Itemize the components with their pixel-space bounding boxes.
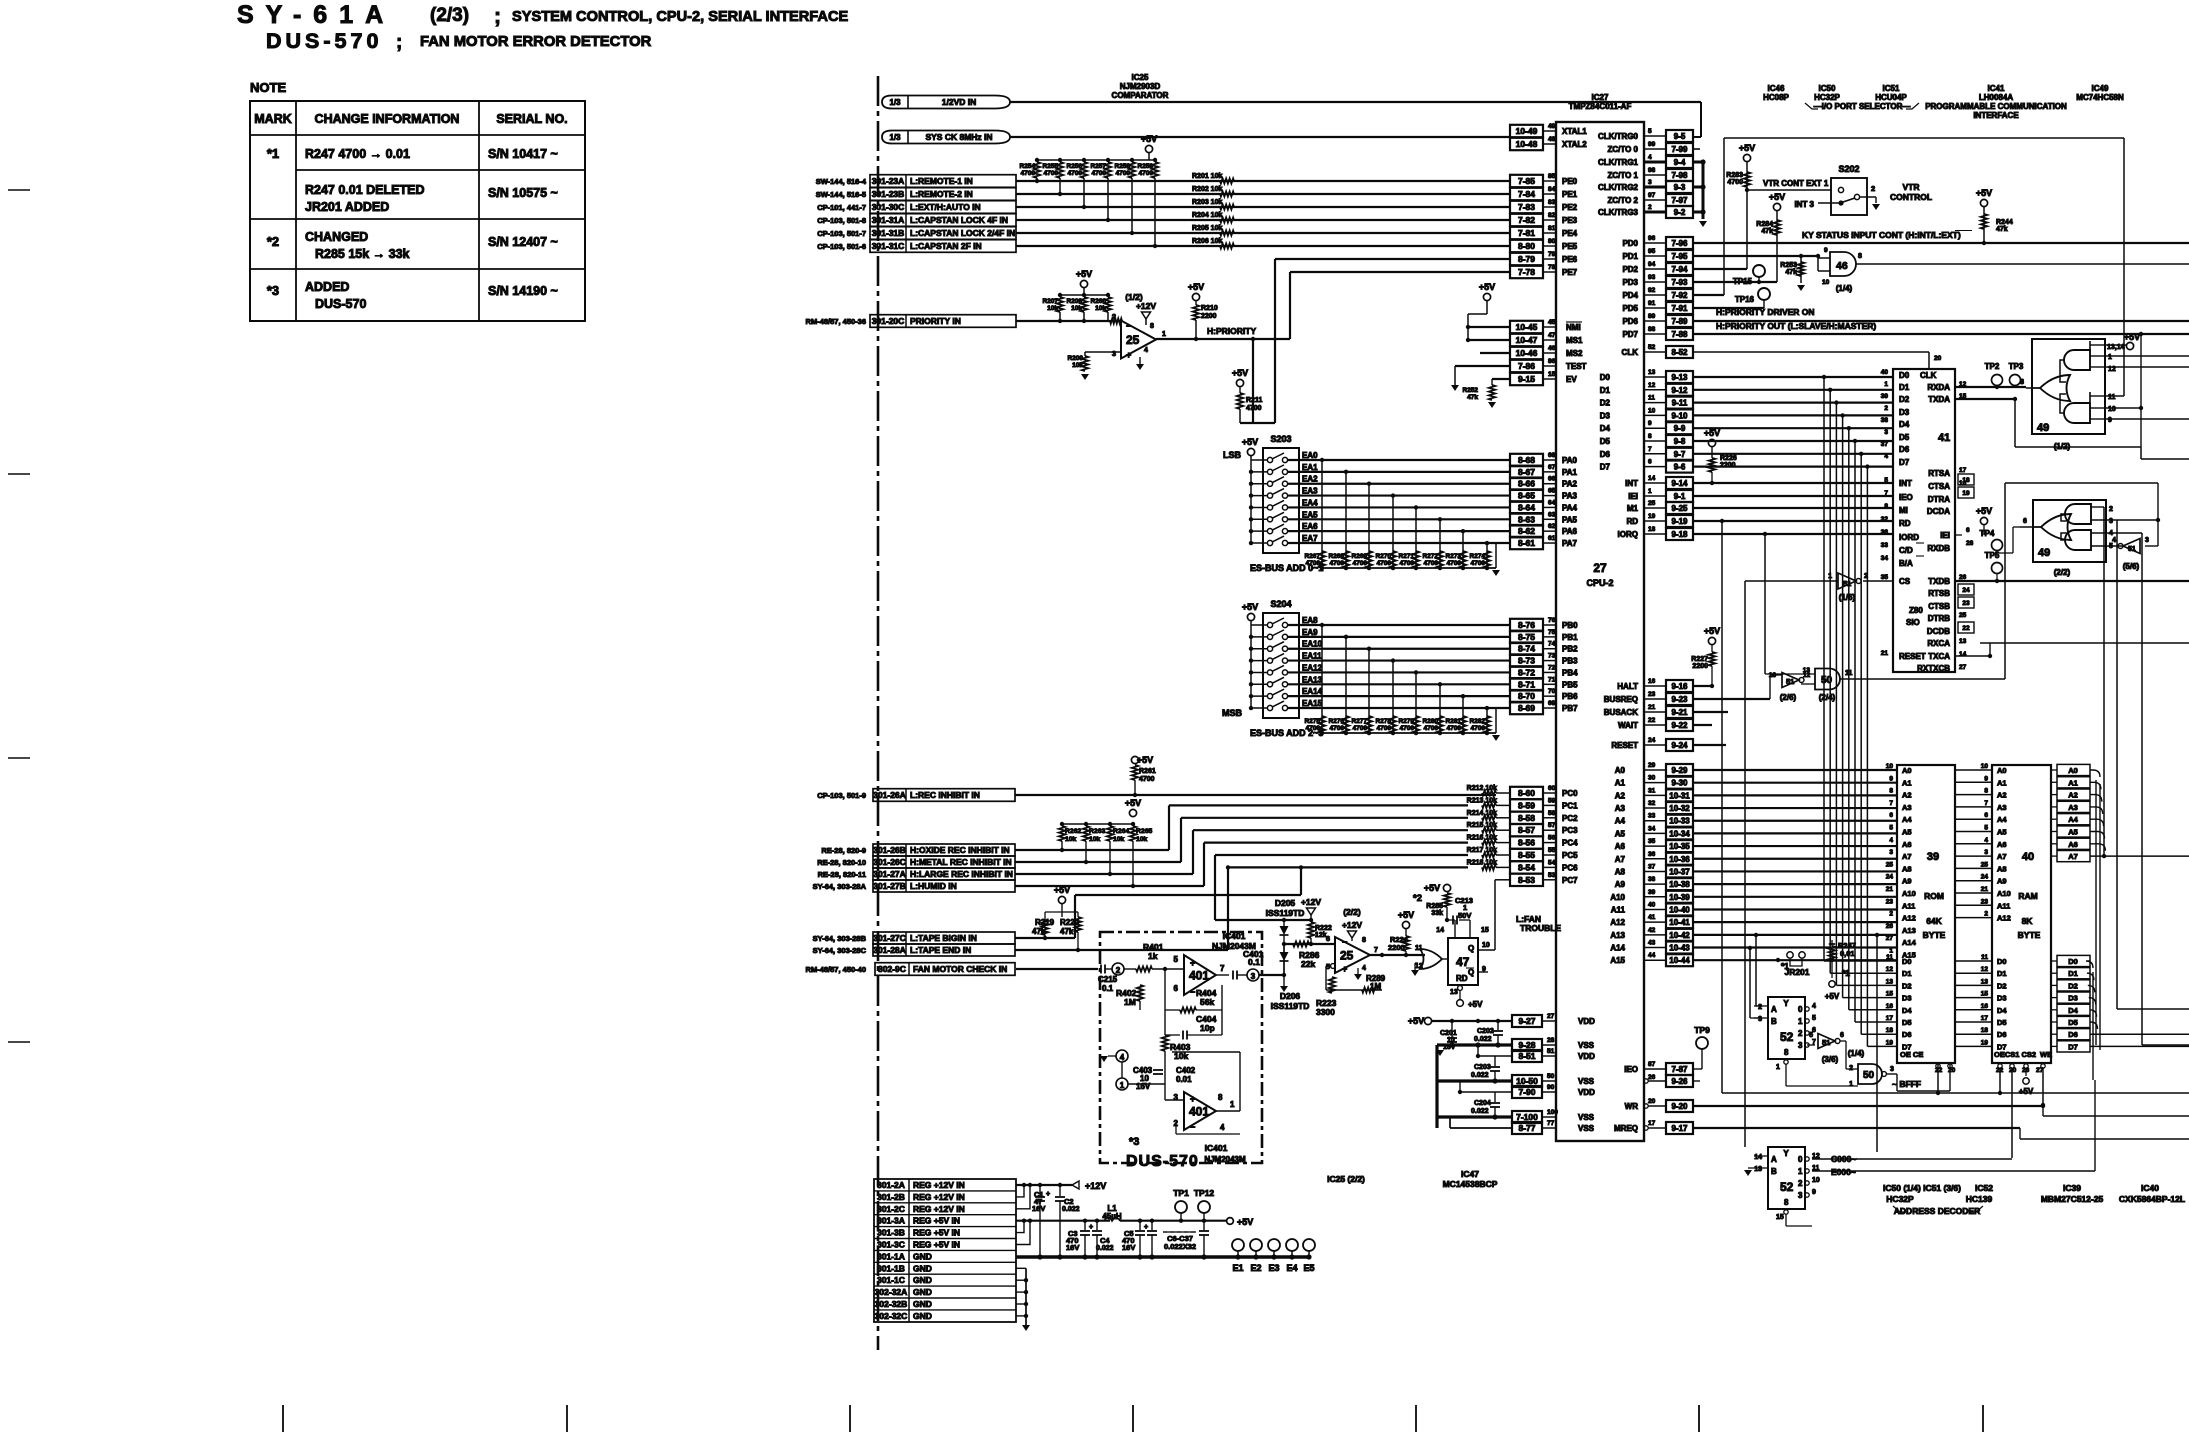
svg-text:30: 30 xyxy=(1648,775,1656,782)
svg-text:IEO: IEO xyxy=(1899,493,1913,502)
svg-text:R201 10k: R201 10k xyxy=(1192,173,1222,180)
svg-text:D1: D1 xyxy=(1902,969,1912,978)
svg-text:56: 56 xyxy=(1548,835,1556,842)
svg-text:67: 67 xyxy=(1548,464,1556,471)
svg-text:24: 24 xyxy=(1962,587,1970,594)
svg-text:0.022: 0.022 xyxy=(1474,1036,1492,1043)
svg-text:B: B xyxy=(1771,1167,1777,1176)
svg-text:4: 4 xyxy=(2112,537,2116,544)
svg-text:3: 3 xyxy=(1884,429,1888,436)
svg-text:2: 2 xyxy=(1112,312,1116,321)
svg-text:301-1B: 301-1B xyxy=(877,1263,905,1273)
svg-text:SYSTEM CONTROL, CPU-2, SERIAL: SYSTEM CONTROL, CPU-2, SERIAL INTERFACE xyxy=(512,9,848,25)
svg-text:E1: E1 xyxy=(1232,1263,1243,1273)
svg-text:D2: D2 xyxy=(1899,395,1910,404)
svg-text:XTAL1: XTAL1 xyxy=(1562,127,1587,136)
svg-text:14: 14 xyxy=(1959,651,1967,658)
svg-text:3: 3 xyxy=(1251,972,1256,981)
svg-text:9-23: 9-23 xyxy=(1671,695,1688,704)
svg-text:(2/6): (2/6) xyxy=(1780,693,1797,702)
svg-text:*3: *3 xyxy=(1129,1136,1139,1148)
svg-text:A4: A4 xyxy=(1997,815,2007,824)
svg-text:78: 78 xyxy=(1548,264,1556,271)
svg-text:7: 7 xyxy=(1648,446,1652,453)
svg-text:7-89: 7-89 xyxy=(1671,317,1688,326)
svg-text:BYTE: BYTE xyxy=(2018,930,2041,940)
svg-text:E4: E4 xyxy=(1286,1263,1297,1273)
svg-text:+5V: +5V xyxy=(1739,143,1755,153)
svg-text:A11: A11 xyxy=(1902,901,1915,910)
svg-text:A7: A7 xyxy=(1902,852,1912,861)
svg-text:PE4: PE4 xyxy=(1562,229,1578,238)
svg-text:25: 25 xyxy=(1126,333,1140,347)
svg-text:25: 25 xyxy=(1886,861,1894,868)
svg-text:MSB: MSB xyxy=(1222,708,1243,718)
svg-text:PA5: PA5 xyxy=(1562,515,1578,524)
svg-text:EA7: EA7 xyxy=(1302,534,1318,543)
svg-text:10k: 10k xyxy=(1113,836,1125,843)
svg-text:56k: 56k xyxy=(1200,997,1214,1007)
svg-text:D7: D7 xyxy=(2068,1042,2078,1051)
svg-text:7-92: 7-92 xyxy=(1671,291,1688,300)
svg-text:RTSB: RTSB xyxy=(1928,589,1950,598)
svg-text:21: 21 xyxy=(1881,650,1889,657)
svg-text:RTSA: RTSA xyxy=(1928,469,1950,478)
svg-text:REG +5V IN: REG +5V IN xyxy=(913,1228,960,1238)
svg-text:B/A: B/A xyxy=(1899,559,1913,568)
svg-text:A2: A2 xyxy=(1615,791,1626,800)
svg-text:PB5: PB5 xyxy=(1562,680,1578,689)
svg-text:26: 26 xyxy=(1648,1074,1656,1081)
svg-text:L:TAPE BIGIN IN: L:TAPE BIGIN IN xyxy=(910,933,977,943)
svg-text:302-9C: 302-9C xyxy=(878,964,906,974)
svg-text:46: 46 xyxy=(1836,260,1848,272)
svg-text:10: 10 xyxy=(1981,763,1989,770)
svg-text:A1: A1 xyxy=(1997,778,2007,787)
svg-text:PC6: PC6 xyxy=(1562,863,1578,872)
svg-text:DUS-570: DUS-570 xyxy=(315,297,366,311)
svg-text:2200: 2200 xyxy=(1692,663,1708,670)
svg-text:A11: A11 xyxy=(1997,901,2010,910)
svg-text:301-31C: 301-31C xyxy=(872,241,905,251)
svg-text:C2: C2 xyxy=(1064,1197,1074,1206)
svg-text:VSS: VSS xyxy=(1578,1041,1595,1050)
svg-text:H:LARGE REC INHIBIT IN: H:LARGE REC INHIBIT IN xyxy=(910,869,1013,879)
svg-text:PA7: PA7 xyxy=(1562,539,1578,548)
svg-text:;: ; xyxy=(494,5,501,28)
svg-text:9-6: 9-6 xyxy=(1674,463,1686,472)
svg-text:53: 53 xyxy=(1548,872,1556,879)
svg-text:+5V: +5V xyxy=(1242,602,1258,612)
svg-text:D0: D0 xyxy=(2068,957,2078,966)
svg-text:301-30C: 301-30C xyxy=(872,202,905,212)
svg-text:11: 11 xyxy=(1886,954,1893,961)
svg-text:1: 1 xyxy=(1884,381,1888,388)
svg-text:4: 4 xyxy=(1984,837,1988,844)
svg-text:1: 1 xyxy=(1648,488,1652,495)
svg-text:IC25 (2/2): IC25 (2/2) xyxy=(1327,1174,1365,1184)
svg-text:13: 13 xyxy=(1959,638,1967,645)
svg-text:ZC/TO 1: ZC/TO 1 xyxy=(1607,171,1638,180)
svg-text:PE2: PE2 xyxy=(1562,203,1578,212)
svg-text:27: 27 xyxy=(1593,561,1607,575)
svg-text:8-57: 8-57 xyxy=(1518,825,1535,835)
svg-text:EA9: EA9 xyxy=(1302,628,1318,637)
svg-text:BYTE: BYTE xyxy=(1923,930,1946,940)
svg-text:A4: A4 xyxy=(1615,817,1626,826)
svg-text:(1/4): (1/4) xyxy=(1836,284,1853,293)
svg-text:8-71: 8-71 xyxy=(1518,679,1535,689)
svg-text:D3: D3 xyxy=(1600,411,1611,420)
svg-text:+5V: +5V xyxy=(1408,1016,1424,1026)
svg-text:81: 81 xyxy=(1548,225,1556,232)
svg-text:IC401: IC401 xyxy=(1223,931,1246,941)
svg-text:D7: D7 xyxy=(1899,458,1910,467)
svg-text:0.022: 0.022 xyxy=(1062,1206,1080,1213)
svg-text:IC25: IC25 xyxy=(1132,73,1149,82)
svg-text:S204: S204 xyxy=(1270,599,1291,609)
svg-text:MS2: MS2 xyxy=(1566,349,1583,358)
svg-text:INT: INT xyxy=(1625,479,1638,488)
svg-text:50: 50 xyxy=(1863,1070,1875,1081)
svg-text:301-1C: 301-1C xyxy=(877,1275,905,1285)
svg-text:10-39: 10-39 xyxy=(1669,893,1690,902)
svg-text:8-70: 8-70 xyxy=(1518,691,1535,701)
svg-text:55: 55 xyxy=(1548,847,1556,854)
svg-text:52: 52 xyxy=(1648,344,1656,351)
svg-text:EA14: EA14 xyxy=(1302,687,1323,696)
svg-text:IEI: IEI xyxy=(1628,492,1638,501)
svg-text:8-72: 8-72 xyxy=(1518,667,1535,677)
svg-text:A6: A6 xyxy=(1902,840,1912,849)
svg-text:50V: 50V xyxy=(1458,911,1471,920)
svg-text:D3: D3 xyxy=(1902,994,1912,1003)
svg-text:19: 19 xyxy=(1886,1039,1894,1046)
svg-text:10-40: 10-40 xyxy=(1669,905,1690,914)
svg-text:7-95: 7-95 xyxy=(1671,252,1688,261)
svg-text:+5V: +5V xyxy=(1825,992,1840,1001)
svg-text:D3: D3 xyxy=(2068,994,2078,1003)
svg-text:0.1: 0.1 xyxy=(1248,957,1260,967)
svg-text:;: ; xyxy=(396,32,402,53)
svg-text:PC2: PC2 xyxy=(1562,814,1578,823)
svg-text:D7: D7 xyxy=(1600,463,1611,472)
svg-text:D1: D1 xyxy=(1600,386,1611,395)
svg-text:IC401: IC401 xyxy=(1205,1143,1228,1153)
svg-text:2: 2 xyxy=(1648,204,1652,211)
svg-text:79: 79 xyxy=(1548,251,1556,258)
svg-text:65: 65 xyxy=(1548,488,1556,495)
svg-text:4700: 4700 xyxy=(1139,170,1154,177)
svg-text:R260: R260 xyxy=(1090,298,1106,305)
svg-text:7-96: 7-96 xyxy=(1671,239,1688,248)
svg-text:34: 34 xyxy=(1648,825,1656,832)
svg-text:28: 28 xyxy=(1966,540,1974,547)
svg-text:10k: 10k xyxy=(1089,836,1101,843)
svg-text:7: 7 xyxy=(1220,964,1225,973)
svg-text:301-27C: 301-27C xyxy=(873,933,906,943)
svg-text:4700: 4700 xyxy=(1447,725,1462,732)
svg-text:17: 17 xyxy=(1886,1015,1894,1022)
svg-text:9-17: 9-17 xyxy=(1671,1124,1688,1133)
svg-text:301-3B: 301-3B xyxy=(877,1228,905,1238)
svg-text:9-4: 9-4 xyxy=(1674,158,1686,167)
svg-text:11: 11 xyxy=(1648,395,1655,402)
svg-text:WAIT: WAIT xyxy=(1618,721,1638,730)
svg-text:32: 32 xyxy=(1648,800,1656,807)
svg-text:14: 14 xyxy=(1754,1154,1762,1161)
svg-text:8-67: 8-67 xyxy=(1518,467,1535,477)
svg-text:IC27: IC27 xyxy=(1592,93,1609,102)
svg-text:4: 4 xyxy=(1144,347,1148,354)
svg-text:L:REC INHIBIT IN: L:REC INHIBIT IN xyxy=(910,790,980,800)
svg-text:8: 8 xyxy=(1784,1198,1789,1207)
svg-text:IC39: IC39 xyxy=(2063,1183,2081,1193)
svg-text:4: 4 xyxy=(1648,154,1652,161)
svg-text:SY-64, 303-28C: SY-64, 303-28C xyxy=(813,946,867,955)
svg-text:2: 2 xyxy=(1798,1029,1803,1038)
svg-text:R267: R267 xyxy=(1304,553,1320,560)
svg-text:A0: A0 xyxy=(1902,766,1912,775)
svg-text:301-1A: 301-1A xyxy=(877,1251,905,1261)
svg-text:7-84: 7-84 xyxy=(1518,189,1535,199)
svg-text:L:REMOTE-2 IN: L:REMOTE-2 IN xyxy=(910,189,973,199)
svg-text:39: 39 xyxy=(1881,393,1889,400)
svg-text:L:REMOTE-1 IN: L:REMOTE-1 IN xyxy=(910,176,973,186)
svg-text:(5/6): (5/6) xyxy=(2123,562,2140,571)
svg-text:TEST: TEST xyxy=(1566,362,1587,371)
svg-text:26: 26 xyxy=(1886,923,1894,930)
svg-text:GND: GND xyxy=(913,1287,932,1297)
svg-text:R262: R262 xyxy=(1065,828,1081,835)
svg-text:1/3: 1/3 xyxy=(889,133,901,142)
svg-text:10k: 10k xyxy=(1072,362,1083,369)
svg-text:D6: D6 xyxy=(1997,1030,2007,1039)
svg-text:(1/4): (1/4) xyxy=(1848,1049,1865,1058)
svg-text:8: 8 xyxy=(1984,788,1988,795)
svg-text:+: + xyxy=(1089,1224,1093,1231)
svg-text:MC74HC58N: MC74HC58N xyxy=(2076,93,2124,102)
svg-text:Z80: Z80 xyxy=(1909,606,1923,615)
svg-text:35: 35 xyxy=(1881,574,1889,581)
svg-text:13: 13 xyxy=(1803,667,1811,674)
svg-text:8-55: 8-55 xyxy=(1518,850,1535,860)
svg-text:7-100: 7-100 xyxy=(1516,1112,1538,1122)
svg-text:41: 41 xyxy=(1938,432,1950,444)
svg-text:80: 80 xyxy=(1548,238,1556,245)
svg-text:A: A xyxy=(1771,1005,1777,1014)
svg-text:10-33: 10-33 xyxy=(1669,817,1690,826)
svg-text:47k: 47k xyxy=(1761,228,1773,235)
svg-text:Q: Q xyxy=(1468,968,1474,977)
svg-text:PD6: PD6 xyxy=(1622,317,1638,326)
svg-text:(2/4): (2/4) xyxy=(1819,693,1836,702)
svg-text:1: 1 xyxy=(1849,1081,1853,1088)
svg-text:33k: 33k xyxy=(1431,910,1443,917)
svg-text:49: 49 xyxy=(1548,123,1556,130)
svg-text:RXDA: RXDA xyxy=(1927,383,1950,392)
svg-text:Y: Y xyxy=(1783,1149,1789,1158)
svg-text:95: 95 xyxy=(1648,248,1656,255)
svg-text:301-3A: 301-3A xyxy=(877,1216,905,1226)
svg-text:39: 39 xyxy=(1927,851,1939,863)
svg-text:R268: R268 xyxy=(1328,553,1344,560)
svg-text:H:PRIORITY: H:PRIORITY xyxy=(1207,326,1256,336)
svg-text:61: 61 xyxy=(1548,535,1556,542)
svg-text:4700: 4700 xyxy=(1400,560,1415,567)
svg-text:96: 96 xyxy=(1648,235,1656,242)
svg-text:0.022: 0.022 xyxy=(1096,1245,1114,1252)
svg-text:40: 40 xyxy=(1648,901,1656,908)
svg-text:99: 99 xyxy=(1648,141,1656,148)
svg-text:37: 37 xyxy=(1648,863,1656,870)
svg-text:10-43: 10-43 xyxy=(1669,944,1690,953)
svg-text:RXTXCB: RXTXCB xyxy=(1917,664,1950,673)
svg-text:0.022: 0.022 xyxy=(1471,1108,1489,1115)
svg-text:2200: 2200 xyxy=(1201,313,1217,320)
svg-text:MI: MI xyxy=(1899,506,1908,515)
svg-text:8: 8 xyxy=(1889,788,1893,795)
svg-text:36: 36 xyxy=(1881,529,1889,536)
svg-text:C4: C4 xyxy=(1100,1236,1110,1245)
svg-text:A13: A13 xyxy=(1902,926,1916,935)
svg-text:7-94: 7-94 xyxy=(1671,265,1688,274)
svg-text:PD5: PD5 xyxy=(1622,304,1638,313)
svg-text:7-85: 7-85 xyxy=(1518,176,1535,186)
svg-text:VTR CONT EXT 1: VTR CONT EXT 1 xyxy=(1763,179,1829,188)
svg-text:8-64: 8-64 xyxy=(1518,502,1535,512)
svg-text:REG +12V IN: REG +12V IN xyxy=(913,1192,965,1202)
svg-text:RD: RD xyxy=(1626,517,1638,526)
svg-text:ROM: ROM xyxy=(1924,891,1944,901)
svg-text:SW-144, 516-5: SW-144, 516-5 xyxy=(816,190,866,199)
svg-text:VDD: VDD xyxy=(1578,1088,1595,1097)
svg-text:8: 8 xyxy=(2020,379,2024,386)
svg-text:10p: 10p xyxy=(1200,1023,1215,1033)
svg-text:39: 39 xyxy=(1648,889,1656,896)
svg-text:A10: A10 xyxy=(1610,893,1625,902)
svg-text:35: 35 xyxy=(1648,838,1656,845)
svg-text:8-51: 8-51 xyxy=(1518,1051,1535,1061)
svg-text:DCDA: DCDA xyxy=(1927,507,1950,516)
svg-text:4700: 4700 xyxy=(1377,725,1392,732)
svg-text:D6: D6 xyxy=(2068,1030,2078,1039)
svg-text:R204 10k: R204 10k xyxy=(1192,212,1222,219)
svg-text:MBM27C512-25: MBM27C512-25 xyxy=(2041,1194,2104,1204)
svg-text:EA12: EA12 xyxy=(1302,663,1323,672)
svg-text:7-98: 7-98 xyxy=(1671,171,1688,180)
svg-text:D3: D3 xyxy=(1997,994,2007,1003)
svg-text:R280: R280 xyxy=(1422,718,1438,725)
svg-text:7-90: 7-90 xyxy=(1518,1087,1535,1097)
svg-text:IEO: IEO xyxy=(1624,1065,1638,1074)
svg-text:(1/6): (1/6) xyxy=(1839,593,1856,602)
svg-text:RESET: RESET xyxy=(1899,652,1926,661)
svg-text:7: 7 xyxy=(1374,947,1378,954)
svg-text:4: 4 xyxy=(1362,965,1366,972)
svg-text:7: 7 xyxy=(1984,800,1988,807)
svg-text:0.022: 0.022 xyxy=(1471,1072,1489,1079)
svg-text:32: 32 xyxy=(1881,516,1889,523)
svg-text:8: 8 xyxy=(1218,1093,1223,1102)
svg-text:WE: WE xyxy=(2040,1050,2052,1059)
svg-text:S/N 14190 ~: S/N 14190 ~ xyxy=(488,284,558,298)
svg-text:7-87: 7-87 xyxy=(1671,1065,1688,1074)
svg-text:A9: A9 xyxy=(1615,880,1626,889)
svg-text:11: 11 xyxy=(2108,394,2116,401)
svg-text:44: 44 xyxy=(1648,952,1656,959)
svg-text:IC41: IC41 xyxy=(1988,84,2005,93)
svg-text:10k: 10k xyxy=(1065,836,1077,843)
svg-text:20: 20 xyxy=(1648,1098,1656,1105)
svg-text:3: 3 xyxy=(1758,1016,1762,1023)
svg-text:VSS: VSS xyxy=(1578,1077,1595,1086)
svg-text:47k: 47k xyxy=(1467,394,1478,401)
svg-text:HCU04P: HCU04P xyxy=(1875,93,1907,102)
svg-text:IC50 (1/4) IC51 (3/6): IC50 (1/4) IC51 (3/6) xyxy=(1883,1183,1961,1193)
svg-text:21: 21 xyxy=(1886,886,1894,893)
svg-text:EA5: EA5 xyxy=(1302,510,1318,519)
svg-text:D5: D5 xyxy=(1902,1018,1912,1027)
svg-text:82: 82 xyxy=(1548,212,1556,219)
svg-text:R210: R210 xyxy=(1201,305,1218,312)
svg-text:NJM2043M: NJM2043M xyxy=(1204,1155,1246,1164)
svg-text:PB7: PB7 xyxy=(1562,704,1578,713)
svg-text:1: 1 xyxy=(1776,1064,1780,1071)
svg-text:8K: 8K xyxy=(2022,916,2034,926)
svg-text:9-22: 9-22 xyxy=(1671,721,1688,730)
svg-text:PRIORITY IN: PRIORITY IN xyxy=(910,316,961,326)
svg-text:BUSACK: BUSACK xyxy=(1604,708,1638,717)
svg-text:18: 18 xyxy=(1981,1027,1989,1034)
svg-text:IC49: IC49 xyxy=(2092,84,2109,93)
svg-text:L:TAPE END IN: L:TAPE END IN xyxy=(910,945,971,955)
svg-text:+5V: +5V xyxy=(1237,1217,1253,1227)
svg-text:A7: A7 xyxy=(1615,855,1626,864)
svg-text:ES-BUS ADD 0~1: ES-BUS ADD 0~1 xyxy=(1250,563,1323,573)
svg-text:59: 59 xyxy=(1548,797,1556,804)
svg-text:D6: D6 xyxy=(1899,445,1910,454)
svg-text:R247 4700 → 0.01: R247 4700 → 0.01 xyxy=(305,147,410,161)
svg-text:10: 10 xyxy=(1822,279,1830,286)
svg-text:301-28A: 301-28A xyxy=(873,945,906,955)
svg-text:R278: R278 xyxy=(1375,718,1391,725)
svg-text:+: + xyxy=(1342,964,1347,974)
svg-text:RM-48/57, 450-36: RM-48/57, 450-36 xyxy=(806,317,866,326)
svg-text:R273: R273 xyxy=(1445,553,1461,560)
svg-text:C/D: C/D xyxy=(1899,546,1913,555)
svg-text:3: 3 xyxy=(2145,537,2149,544)
svg-text:S203: S203 xyxy=(1270,434,1291,444)
svg-text:23: 23 xyxy=(1648,691,1656,698)
svg-text:VSS: VSS xyxy=(1578,1113,1595,1122)
svg-text:63: 63 xyxy=(1548,511,1556,518)
svg-text:R253: R253 xyxy=(1780,262,1797,269)
svg-text:D0: D0 xyxy=(1600,373,1611,382)
svg-text:52: 52 xyxy=(1780,1180,1794,1194)
svg-text:9-2: 9-2 xyxy=(1674,208,1686,217)
svg-text:D4: D4 xyxy=(1899,420,1910,429)
svg-text:7-82: 7-82 xyxy=(1518,215,1535,225)
svg-text:CP-103, 501-9: CP-103, 501-9 xyxy=(817,791,866,800)
svg-text:EA0: EA0 xyxy=(1302,451,1318,460)
svg-text:10-50: 10-50 xyxy=(1516,1076,1538,1086)
svg-text:+5V: +5V xyxy=(1479,282,1495,292)
svg-text:+5V: +5V xyxy=(1704,428,1720,438)
svg-text:47k: 47k xyxy=(1785,269,1797,276)
svg-text:A7: A7 xyxy=(2068,852,2078,861)
svg-text:+5V: +5V xyxy=(1468,1000,1483,1009)
